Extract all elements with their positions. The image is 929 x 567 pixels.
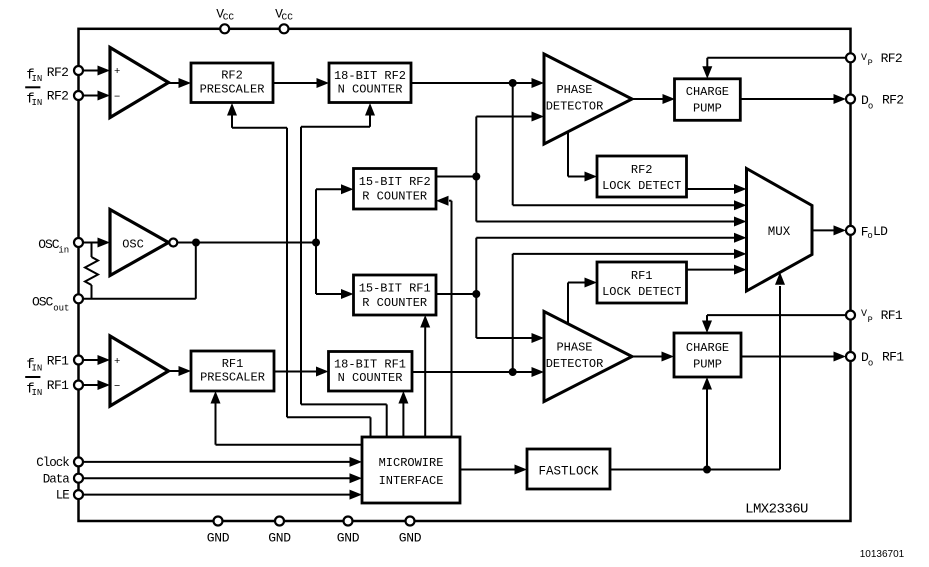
svg-text:18-BIT RF2: 18-BIT RF2 [334,69,406,83]
svg-text:DETECTOR: DETECTOR [546,357,604,371]
svg-text:FASTLOCK: FASTLOCK [538,465,599,479]
svg-text:o: o [867,231,872,241]
svg-text:RF1: RF1 [47,354,69,369]
svg-text:RF2: RF2 [221,69,243,83]
svg-text:PRESCALER: PRESCALER [200,371,265,385]
svg-text:P: P [868,58,873,68]
svg-text:LD: LD [873,224,888,239]
svg-text:RF1: RF1 [882,350,904,365]
svg-text:V: V [861,53,867,64]
svg-text:RF2: RF2 [47,89,68,104]
svg-text:V: V [861,309,867,320]
svg-text:GND: GND [268,531,291,546]
svg-text:CC: CC [223,12,235,23]
svg-text:OSC: OSC [122,238,144,252]
svg-text:in: in [58,246,69,256]
svg-text:GND: GND [337,531,360,546]
svg-text:RF2: RF2 [882,93,903,108]
svg-text:+: + [114,356,120,368]
svg-text:RF1: RF1 [631,269,653,283]
svg-text:RF2: RF2 [47,65,68,80]
svg-text:PHASE: PHASE [556,341,592,355]
svg-text:GND: GND [399,531,422,546]
svg-text:IN: IN [32,364,43,374]
svg-text:PUMP: PUMP [693,102,722,116]
svg-text:RF1: RF1 [881,308,903,323]
svg-text:15-BIT RF2: 15-BIT RF2 [359,175,431,189]
svg-text:+: + [114,66,120,78]
svg-text:P: P [868,315,873,325]
svg-text:RF1: RF1 [222,357,244,371]
svg-text:LOCK DETECT: LOCK DETECT [602,285,681,299]
svg-text:PHASE: PHASE [556,83,592,97]
svg-text:RF2: RF2 [881,51,902,66]
svg-text:−: − [114,381,120,393]
svg-text:LE: LE [56,489,70,503]
svg-text:IN: IN [32,98,43,108]
svg-text:Clock: Clock [36,456,69,470]
svg-text:out: out [53,303,69,313]
svg-text:DETECTOR: DETECTOR [546,100,604,114]
svg-text:R COUNTER: R COUNTER [362,296,427,310]
svg-text:o: o [868,102,873,112]
svg-text:18-BIT RF1: 18-BIT RF1 [334,357,406,371]
svg-text:OSC: OSC [32,294,54,309]
svg-text:LOCK DETECT: LOCK DETECT [602,179,681,193]
svg-text:−: − [114,91,120,103]
svg-text:Data: Data [43,472,71,486]
svg-text:GND: GND [207,531,230,546]
svg-text:MICROWIRE: MICROWIRE [379,456,444,470]
svg-text:N COUNTER: N COUNTER [338,83,403,97]
svg-text:PRESCALER: PRESCALER [200,82,265,96]
svg-text:INTERFACE: INTERFACE [379,474,444,488]
svg-text:MUX: MUX [768,225,791,239]
svg-text:15-BIT RF1: 15-BIT RF1 [359,281,431,295]
svg-text:RF1: RF1 [47,378,69,393]
svg-text:OSC: OSC [38,237,60,252]
svg-text:IN: IN [32,388,43,398]
svg-text:IN: IN [32,74,43,84]
svg-text:CHARGE: CHARGE [686,85,729,99]
svg-text:CHARGE: CHARGE [686,341,729,355]
svg-text:PUMP: PUMP [693,358,722,372]
svg-text:LMX2336U: LMX2336U [745,502,808,518]
svg-text:N COUNTER: N COUNTER [338,371,403,385]
svg-text:CC: CC [282,12,294,23]
svg-text:R COUNTER: R COUNTER [362,190,427,204]
svg-text:RF2: RF2 [631,163,653,177]
svg-text:10136701: 10136701 [860,549,905,560]
svg-text:o: o [868,359,873,369]
